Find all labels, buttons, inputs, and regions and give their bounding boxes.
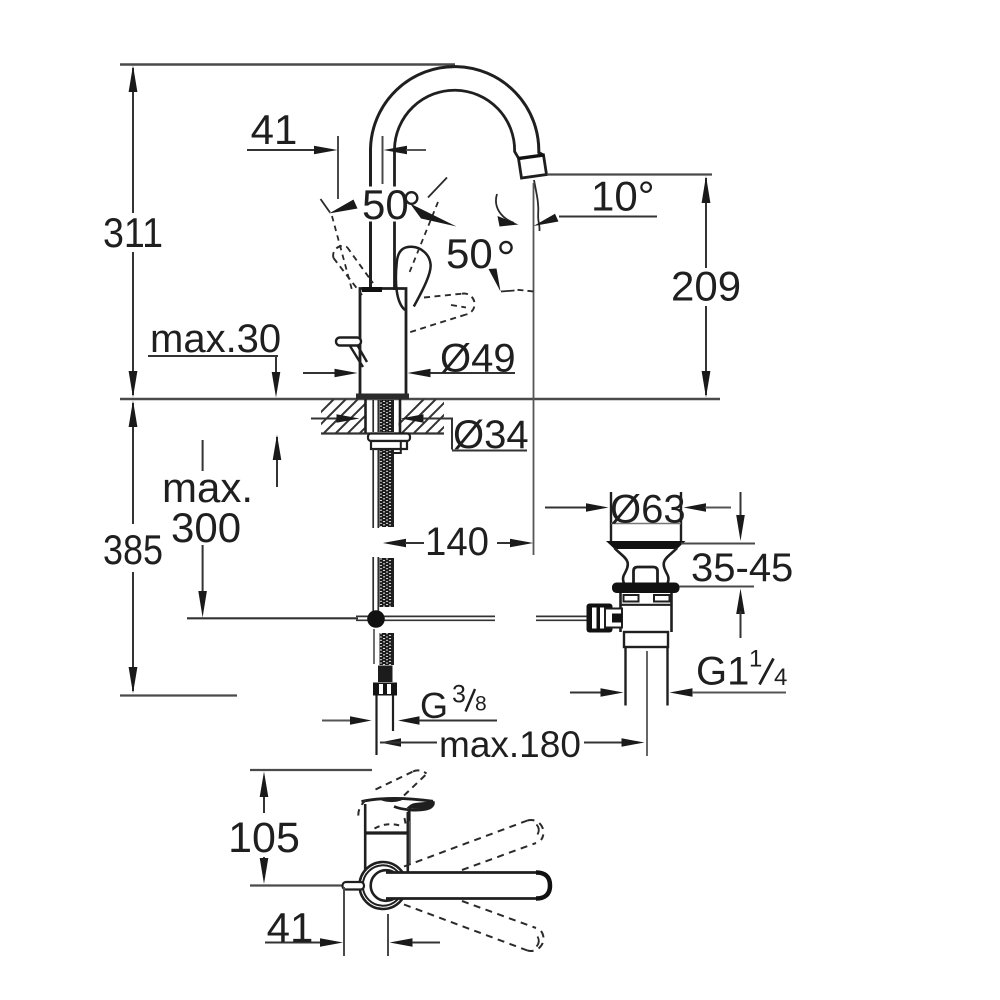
svg-text:Ø63: Ø63 <box>610 488 686 532</box>
arrow up 385 <box>129 401 138 428</box>
inner boss circle <box>371 870 402 901</box>
10deg reference line <box>547 173 712 175</box>
DRAIN VALVE <box>545 488 793 757</box>
supply pipe below nut <box>375 696 377 756</box>
max.300 vertical line <box>202 440 204 594</box>
solid lever teardrop up-right <box>396 247 431 310</box>
svg-text:385: 385 <box>103 526 163 573</box>
tailpipe centerline <box>646 651 648 756</box>
lower wide band <box>624 632 668 647</box>
drain cap top edge <box>611 523 681 525</box>
dim 41 line right part + arrow <box>384 146 408 154</box>
dashed arc in plan body <box>375 824 403 828</box>
counter bottom line <box>321 432 444 434</box>
pop-up pull rod (vertical pair) <box>373 400 378 611</box>
svg-text:140: 140 <box>425 520 489 564</box>
dim 140 line + arrows <box>383 539 406 547</box>
mounting hole walls <box>366 399 401 433</box>
stream extent line down to 140 dim <box>533 183 535 555</box>
plan bottom extent line <box>250 884 343 886</box>
second 50 arrowhead sliver <box>489 269 501 292</box>
counter top line <box>120 398 720 400</box>
hose end fitting <box>378 666 393 683</box>
svg-text:Ø34: Ø34 <box>453 413 529 457</box>
handle bar (side view) <box>336 338 361 346</box>
svg-text:G: G <box>420 685 448 726</box>
dim 35-45 lower ref line <box>680 586 755 588</box>
lever wing top edge <box>362 798 434 801</box>
spout mouth aerator <box>519 155 547 178</box>
svg-text:311: 311 <box>103 209 163 256</box>
dim 35-45 upper ref line <box>681 543 755 545</box>
overflow slot right <box>654 595 670 602</box>
max.30 arrow up below counter <box>276 437 278 487</box>
mounting nut <box>371 441 407 449</box>
svg-text:3: 3 <box>452 681 466 709</box>
PLAN VIEW <box>228 770 550 956</box>
braided hose segment 3 <box>380 633 394 665</box>
overflow slot left <box>624 595 639 602</box>
svg-text:50: 50 <box>362 181 409 228</box>
riser pipe right edge + inner spout arc <box>395 90 519 290</box>
riser pipe left edge + outer spout arc <box>371 67 544 290</box>
plan body cross line <box>365 831 408 834</box>
50deg right leg <box>428 178 447 198</box>
35-45 vertical line + arrows <box>740 492 742 519</box>
50deg right arc arrowhead <box>410 204 457 227</box>
dim 41 line left part + arrow <box>247 149 317 151</box>
dashed lever silhouette up-left <box>333 246 373 295</box>
svg-text:max.30: max.30 <box>150 317 281 361</box>
counter hatching left <box>300 399 394 433</box>
dim 41 top: right extent (faucet axis) <box>382 136 384 184</box>
squiggle lower cap <box>537 937 539 947</box>
G3/8 nut <box>373 683 397 696</box>
max.300 arrow down <box>198 591 207 618</box>
dashed lever silhouette right <box>406 294 475 334</box>
arrow down 385 <box>129 667 138 694</box>
plan body sides <box>365 804 408 872</box>
plan second gray line <box>409 808 411 865</box>
svg-text:300: 300 <box>171 504 241 551</box>
dashed raised lever (plan) <box>358 770 427 817</box>
dimension 385 vertical line <box>132 403 134 691</box>
dimension 209 vertical line <box>705 178 707 395</box>
base flange dark band <box>356 394 409 400</box>
dim 41 extent lines <box>344 887 388 956</box>
pop-up rod horizontal <box>187 617 358 619</box>
handle capsule <box>386 873 550 899</box>
water stream wavy line <box>534 180 540 231</box>
10deg angled line + arrowhead <box>559 216 657 218</box>
svg-text:41: 41 <box>267 904 314 951</box>
tailpipe <box>626 647 668 706</box>
rod junction dot <box>367 610 385 628</box>
dim O49 line + arrows <box>303 372 335 374</box>
top extent line <box>120 63 455 65</box>
svg-text:35-45: 35-45 <box>691 546 793 590</box>
svg-text:209: 209 <box>671 263 741 310</box>
arrow up 209 <box>702 176 711 203</box>
dim G3/8 line + arrows <box>322 720 352 722</box>
lever wing lower curve <box>394 801 433 810</box>
body cross line <box>621 604 672 606</box>
50deg left arc arrowhead <box>329 200 358 214</box>
threaded shank in hole <box>380 400 394 432</box>
spout swivel arc + arrowhead <box>496 194 514 223</box>
faucet body rectangle <box>360 289 406 394</box>
arrow down 311 <box>129 371 138 398</box>
max.30 arrow down to counter <box>275 356 277 375</box>
dashed lever down-right (plan) <box>404 901 544 951</box>
flange black band <box>612 583 680 594</box>
arrow down 209 <box>702 371 711 398</box>
svg-text:41: 41 <box>251 106 298 153</box>
lever wing middle wedge <box>381 798 403 803</box>
385 bottom extent line <box>120 694 237 696</box>
dim 105 vertical line + arrows <box>263 794 265 863</box>
O34 underline <box>452 450 527 452</box>
svg-text:4: 4 <box>774 664 787 691</box>
braided hose segment 2 <box>380 558 394 607</box>
arrow up 311 <box>129 66 138 93</box>
dim 41 top: left extent <box>337 136 339 199</box>
drain cap bottom rim <box>606 541 686 549</box>
braided hose segment 1 <box>380 450 394 527</box>
body top-left dark segment <box>362 287 382 292</box>
tick below wing <box>408 810 410 821</box>
hose crimp step <box>393 442 401 454</box>
knurled rod nut <box>587 604 613 633</box>
svg-text:10°: 10° <box>591 173 655 220</box>
dim 41 line + arrows <box>265 942 321 944</box>
drain cap sides / O63 extent lines <box>611 492 681 542</box>
second 50 short lines <box>501 291 515 292</box>
handle neck diagonals <box>350 346 367 368</box>
lift knob <box>634 567 658 583</box>
outer circle <box>360 862 407 909</box>
dim max.180 line + arrows <box>380 738 402 746</box>
hose lower left edge <box>373 629 375 664</box>
dim O34 line + arrows <box>311 418 338 420</box>
svg-text:105: 105 <box>228 814 300 862</box>
svg-text:G1: G1 <box>696 650 749 694</box>
degree circle of first 50 <box>406 192 418 204</box>
svg-text:50: 50 <box>446 230 493 277</box>
left tick on circle <box>343 882 365 890</box>
MAIN ELEVATION VIEW <box>103 65 741 766</box>
handle capsule right heavy cap <box>536 873 550 899</box>
middle circle <box>363 865 403 905</box>
plan top extent line <box>250 769 372 771</box>
max.30 underline <box>148 355 278 357</box>
dim O63 line + arrows <box>545 507 587 509</box>
squiggle upper cap <box>537 825 539 835</box>
lever wing dark crescent <box>407 802 434 809</box>
dimension 311 vertical line <box>132 68 134 395</box>
svg-text:8: 8 <box>475 693 487 716</box>
svg-text:max.180: max.180 <box>439 724 581 765</box>
dashed lever up-right (plan) <box>404 820 543 870</box>
counter hatching right <box>390 399 472 433</box>
washer below counter <box>368 434 410 442</box>
svg-text:1: 1 <box>749 646 762 673</box>
svg-text:Ø49: Ø49 <box>440 337 516 381</box>
valve neck right <box>664 548 677 583</box>
valve body sides <box>621 593 672 632</box>
50deg left leg <box>321 199 331 213</box>
dim G1 1/4 line + arrows <box>570 692 602 694</box>
valve neck left <box>615 548 628 583</box>
